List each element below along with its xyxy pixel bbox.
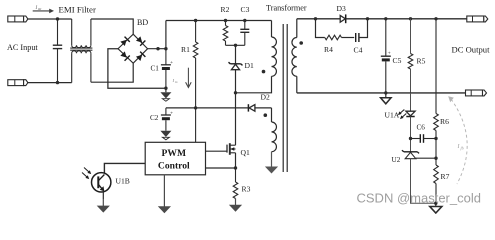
PWM controller block U3	[145, 142, 205, 175]
light arrows out of U1A	[398, 110, 406, 120]
wire AC bottom line from plug to EMI filter	[27, 82, 71, 84]
AC input plug J1 bottom	[8, 80, 28, 86]
svg-text:fb: fb	[461, 146, 464, 151]
wire R4C4 snubber loop left	[316, 19, 325, 38]
svg-text:CSDN @master_cold: CSDN @master_cold	[357, 191, 481, 206]
svg-text:DC Output: DC Output	[452, 45, 491, 55]
wire snubber to D1	[235, 45, 237, 64]
phasing dot secondary	[299, 41, 303, 45]
optocoupler LED U1A	[406, 111, 415, 116]
phasing dot auxiliary	[264, 113, 268, 117]
svg-text:EMI Filter: EMI Filter	[59, 4, 96, 14]
junction dot divider node	[434, 157, 437, 160]
current arrow startup annotation	[172, 68, 192, 88]
svg-text:Transformer: Transformer	[266, 4, 307, 13]
svg-text:in: in	[175, 80, 178, 84]
junction dot bridge plus A	[156, 47, 159, 50]
svg-text:+: +	[170, 60, 173, 66]
wire bridge plus output	[148, 48, 166, 50]
svg-text:+: +	[388, 51, 391, 57]
capacitor C6 compensation	[411, 134, 437, 143]
svg-text:R7: R7	[441, 172, 450, 181]
bridge rectifier BD diamond	[118, 34, 148, 63]
svg-text:C1: C1	[151, 65, 160, 73]
junction dot sense node	[234, 166, 237, 169]
junction dot minus bus	[164, 87, 167, 90]
svg-text:R2: R2	[221, 5, 230, 14]
wire C4 to snubber right	[359, 19, 368, 38]
junction dot snubber to D1	[234, 44, 237, 47]
svg-text:C2: C2	[150, 114, 159, 122]
wire current sense to PWM	[206, 167, 236, 169]
DC output plug top	[467, 16, 488, 22]
capacitor C3 snubber	[240, 21, 249, 46]
svg-text:C6: C6	[417, 124, 426, 132]
wire AC top line from plug to EMI filter	[27, 18, 71, 20]
wire PWM feedback to optocoupler U1B	[104, 163, 145, 173]
wire Q1 source to sense node	[235, 153, 237, 168]
wire secondary top to D3	[297, 18, 340, 20]
svg-text:C4: C4	[354, 46, 363, 55]
phasing dot primary	[262, 70, 266, 74]
wire bottom rail to U1A LED	[410, 93, 412, 111]
capacitor C2 VCC electrolytic	[161, 108, 173, 131]
svg-text:U1A: U1A	[385, 111, 400, 120]
wire R4 to C4	[342, 37, 355, 39]
svg-text:Q1: Q1	[241, 148, 250, 157]
capacitor CX across AC line	[53, 19, 62, 83]
feedback loop dashed arc	[451, 99, 467, 184]
junction dot AC bottom at CX	[56, 81, 59, 84]
transformer T1 secondary winding	[292, 19, 297, 93]
wire primary bottom to drain node	[236, 76, 272, 93]
junction dot C3 top	[243, 19, 246, 22]
resistor R5 load	[408, 19, 413, 93]
wire PWM gate drive to Q1	[206, 150, 227, 152]
svg-text:D2: D2	[261, 93, 270, 102]
svg-text:D1: D1	[245, 61, 254, 70]
arrowhead feedback arc	[448, 96, 454, 102]
optocoupler phototransistor U1B	[92, 173, 111, 192]
svg-text:C3: C3	[241, 5, 250, 14]
svg-text:Control: Control	[158, 161, 190, 172]
svg-text:R6: R6	[440, 117, 449, 126]
svg-text:R3: R3	[242, 185, 251, 194]
ground R3 (arrow)	[235, 199, 237, 208]
junction dot C6 left	[409, 137, 412, 140]
transformer T1 primary winding	[272, 21, 277, 77]
wire D1 anode to drain node	[235, 70, 237, 93]
wire VCC line from aux winding through D2	[255, 107, 272, 109]
wire bridge minus output routed under to ground bus	[108, 49, 166, 88]
EMI common-mode choke L1	[70, 19, 92, 83]
junction dot snubber left	[314, 17, 317, 20]
shunt regulator U2 TL431	[402, 150, 419, 159]
wire choke top output to bridge	[91, 19, 133, 34]
AC input plug J1 top	[8, 16, 28, 22]
junction dot bridge plus B	[164, 47, 167, 50]
junction dot VCC at R1	[194, 106, 197, 109]
diode D1 clamp zener	[229, 62, 243, 69]
wire U1B emitter down	[102, 191, 104, 199]
wire U2 anode to ground bus	[411, 159, 436, 204]
transistor Q1 MOSFET	[227, 143, 236, 155]
wire D3 cathode along output rail	[346, 18, 467, 20]
transformer T1 auxiliary winding	[272, 108, 277, 152]
wire VCC line D2 to C2/R1 node	[166, 107, 249, 109]
svg-text:C5: C5	[393, 56, 402, 65]
wire secondary bottom rail	[297, 92, 466, 94]
resistor R7 divider bottom	[434, 165, 439, 203]
resistor R3 sense	[233, 168, 238, 199]
resistor R6 divider top	[434, 19, 439, 165]
ground C2 (filled triangle)	[160, 131, 171, 140]
ground U1B (arrow)	[102, 199, 104, 208]
resistor R1 startup	[193, 21, 198, 143]
wire B+ top rail to transformer primary	[166, 20, 272, 22]
wire U1A cathode down	[410, 117, 412, 152]
junction dot AC top at CX	[56, 17, 59, 20]
junction dot R7 ground node	[434, 202, 437, 205]
ground secondary (open triangle)	[381, 93, 392, 104]
capacitor C1 bulk electrolytic	[161, 49, 173, 88]
junction dot R2 top	[224, 19, 227, 22]
svg-text:R5: R5	[417, 57, 426, 66]
junction dot C6 right	[434, 137, 437, 140]
light arrows into U1B	[82, 168, 91, 180]
wire B+ riser to top rail	[165, 21, 167, 49]
junction dot snubber right	[366, 17, 369, 20]
capacitor C5 output electrolytic	[381, 19, 391, 93]
ground auxiliary winding (arrow)	[271, 152, 273, 169]
wire U2 ref to divider node	[416, 157, 436, 159]
junction dot R5 rail	[409, 17, 412, 20]
ground primary (filled triangle) at C1	[160, 88, 171, 101]
svg-text:BD: BD	[137, 18, 148, 27]
junction dot C5 rail	[384, 17, 387, 20]
svg-text:AC Input: AC Input	[7, 43, 38, 52]
transformer core lines	[282, 24, 284, 172]
svg-text:+: +	[170, 111, 173, 117]
svg-text:U2: U2	[392, 156, 401, 164]
svg-text:D3: D3	[337, 4, 346, 13]
svg-text:U1B: U1B	[116, 177, 130, 186]
DC output plug bottom	[466, 90, 487, 96]
junction dot drain node	[234, 91, 237, 94]
junction dot R1 top rail	[194, 19, 197, 22]
junction dot secondary ground	[384, 91, 387, 94]
wire snubber bottom bus	[226, 44, 245, 46]
wire choke bottom output to bridge	[91, 63, 133, 82]
svg-text:R4: R4	[324, 45, 333, 54]
capacitor C4	[356, 33, 359, 42]
svg-text:R1: R1	[181, 45, 190, 54]
wire drain node down to Q1 (crosses VCC wire)	[235, 93, 237, 145]
resistor R2 snubber	[223, 21, 228, 46]
ground PWM block (arrow)	[163, 175, 165, 209]
junction dot feedback branch rail	[434, 17, 437, 20]
diode D2 aux rectifier	[248, 104, 255, 111]
resistor R4	[325, 35, 342, 40]
diode D3 output rectifier	[340, 14, 346, 23]
current arrow Iin annotation	[33, 6, 54, 13]
svg-text:PWM: PWM	[162, 148, 187, 159]
ground R7 (arrow)	[430, 203, 442, 213]
